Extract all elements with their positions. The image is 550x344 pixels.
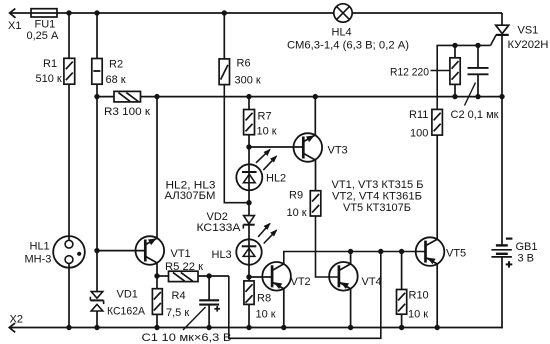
wire C1 top lead xyxy=(208,276,210,300)
node AB (bottom rail / VT4 lower lead) xyxy=(348,325,353,330)
node AA (bottom rail / VT2 lower lead) xyxy=(281,325,286,330)
svg-text:R2: R2 xyxy=(109,59,123,71)
wire R8 top lead xyxy=(248,277,250,281)
svg-text:10 к: 10 к xyxy=(408,308,428,320)
node AC (bottom rail / R10) xyxy=(399,325,404,330)
svg-text:100: 100 xyxy=(410,128,428,140)
wire R2 bottom to divider bus xyxy=(96,84,98,96)
wire R12 bottom to bus xyxy=(454,84,456,96)
wire feedback: R5/C1 node down, along lower run, up to VT5 base net xyxy=(229,252,381,339)
resistor R11 100 xyxy=(409,109,442,140)
wire battery negative lead to bottom rail corner xyxy=(501,257,503,328)
svg-text:300 к: 300 к xyxy=(235,75,261,87)
wire bottom rail xyxy=(9,327,503,329)
wire R2 column down to VT1 base node xyxy=(96,97,98,251)
node H (R5 wire / C1 top) xyxy=(206,273,211,278)
svg-text:10 к: 10 к xyxy=(257,126,277,138)
wire VT5 lower lead to bottom rail xyxy=(436,264,438,328)
svg-text:HL2: HL2 xyxy=(266,173,286,185)
svg-text:510 к: 510 к xyxy=(36,73,62,85)
svg-text:VT2: VT2 xyxy=(291,276,311,288)
label HL2, HL3 type xyxy=(165,179,216,202)
wire top rail from X1 to lamp HL4 xyxy=(10,12,334,14)
wire R5 right end to feedback corner xyxy=(198,275,229,277)
resistor R1 510 к xyxy=(36,58,75,85)
wire HL1 bottom to bottom rail xyxy=(68,264,70,328)
node Z (bottom rail / R8) xyxy=(246,325,251,330)
capacitor C2 0,1 мк xyxy=(451,68,499,121)
svg-text:10 к: 10 к xyxy=(287,207,307,219)
svg-text:R9: R9 xyxy=(289,190,303,202)
wire R6 bottom crossing divider bus down to HL2/VD2 node xyxy=(224,85,249,203)
label transistor types xyxy=(332,179,424,214)
svg-text:10 к: 10 к xyxy=(256,309,276,321)
svg-text:R12 220: R12 220 xyxy=(390,67,429,79)
node W (bottom rail / VD1) xyxy=(94,325,99,330)
wire VT4 lower lead to bottom rail xyxy=(350,289,352,328)
wire C1 bottom lead to bottom rail xyxy=(208,306,210,328)
svg-text:HL3: HL3 xyxy=(212,249,232,261)
svg-text:VT5 КТ3107Б: VT5 КТ3107Б xyxy=(343,202,411,214)
node E (VT1 base / VD1 column) xyxy=(94,248,99,253)
node V (bottom rail / HL1) xyxy=(66,325,71,330)
transistor VT5 КТ3107Б xyxy=(416,237,466,266)
wire top-right corner down to VS1 anode xyxy=(501,13,503,25)
svg-text:КУ202Н: КУ202Н xyxy=(508,39,549,51)
svg-text:FU1: FU1 xyxy=(35,19,56,31)
svg-text:7,5 к: 7,5 к xyxy=(166,307,189,319)
wire VT1 base from node E xyxy=(97,250,145,252)
node U (bus / thyristor cathode column) xyxy=(499,94,504,99)
svg-text:МН-3: МН-3 xyxy=(25,253,52,265)
node P (collector net / R10 top) xyxy=(399,249,404,254)
svg-text:АЛ307БМ: АЛ307БМ xyxy=(165,190,216,202)
wire divider bus to R3 xyxy=(97,96,114,98)
node C (top rail / R6) xyxy=(222,10,227,15)
wire VD2 cathode through LED HL3 to VT2 base node xyxy=(248,225,250,277)
resistor R9 10 к xyxy=(287,190,321,220)
wire VT3 upper lead to divider bus xyxy=(314,97,316,136)
connector X1 (mains terminal, arrow) xyxy=(8,9,21,32)
svg-text:VT1, VT3 КТ315 Б: VT1, VT3 КТ315 Б xyxy=(332,179,424,191)
wire R12 top lead xyxy=(454,45,456,57)
svg-text:СМ6,3-1,4 (6,3 В; 0,2 А): СМ6,3-1,4 (6,3 В; 0,2 А) xyxy=(287,39,409,51)
wire VD1 column from node E down to VD1 xyxy=(96,251,98,292)
thyristor VS1 КУ202Н xyxy=(496,25,549,52)
svg-text:С1 10 мк×6,3 В: С1 10 мк×6,3 В xyxy=(142,332,232,344)
svg-text:VT2, VT4 КТ361Б: VT2, VT4 КТ361Б xyxy=(332,191,422,203)
wire VT3 base from node J xyxy=(249,146,303,148)
transistor VT3 КТ315Б xyxy=(294,133,348,162)
node B (top rail / R2) xyxy=(94,10,99,15)
LED HL3 АЛ307БМ xyxy=(212,224,277,265)
capacitor C1 10 мк x 6,3 В (electrolytic) xyxy=(142,300,232,344)
transistor VT2 КТ361Б xyxy=(262,262,310,291)
resistor R12 220 xyxy=(390,58,460,85)
wire VT3 lower lead to R9 xyxy=(315,160,317,191)
wire R6 top lead xyxy=(223,13,225,59)
node M (divider bus / VT3 upper lead) xyxy=(313,94,318,99)
wire VS1 cathode column down to battery xyxy=(501,35,503,246)
svg-text:VD1: VD1 xyxy=(117,289,138,301)
battery GB1 3 В xyxy=(491,239,537,268)
svg-text:VT4: VT4 xyxy=(362,276,382,288)
wire node G to R4 xyxy=(156,276,158,289)
svg-text:X1: X1 xyxy=(8,20,21,32)
wire R9 bottom crossing VT2 net down and right to VT4 base xyxy=(316,216,339,277)
zener VD2 КС133А xyxy=(197,211,255,234)
svg-text:С2 0,1 мк: С2 0,1 мк xyxy=(451,109,499,121)
node A (top rail / R1) xyxy=(66,10,71,15)
wire VT1 upper lead to divider bus xyxy=(156,97,158,239)
lamp HL4 CM6,3-1,4 (indicator bulb in series with top rail) xyxy=(287,4,409,52)
wire divider bus y=96.6 from R3 to thyristor column xyxy=(141,96,503,98)
fuse FU1 0,25 A xyxy=(27,9,59,42)
svg-text:VT1: VT1 xyxy=(171,248,191,260)
node K (HL2 cathode / R6 branch / VD2 anode) xyxy=(246,200,251,205)
transistor VT1 КТ315Б xyxy=(136,236,191,265)
wire VT2 base from node L xyxy=(249,276,272,278)
transistor VT4 КТ361Б xyxy=(329,262,382,291)
wire node G to R5 xyxy=(157,275,169,277)
svg-text:КС162А: КС162А xyxy=(107,306,146,318)
node R (gate wire / C2 top) xyxy=(475,43,480,48)
node Y (bottom rail / C1) xyxy=(206,325,211,330)
wire R2 top lead xyxy=(96,13,98,59)
svg-text:КС133А: КС133А xyxy=(197,222,242,234)
svg-text:HL1: HL1 xyxy=(30,240,50,252)
wire C2 bottom to bus xyxy=(477,74,479,96)
node F (divider bus / VT1 upper lead) xyxy=(154,94,159,99)
svg-text:HL4: HL4 xyxy=(332,27,352,39)
svg-text:R1: R1 xyxy=(43,58,57,70)
LED HL2 АЛ307БМ xyxy=(236,150,286,191)
resistor R3 100 к xyxy=(104,91,150,118)
svg-text:R10: R10 xyxy=(409,290,429,302)
node G (VT1 lower lead / R5 / R4) xyxy=(154,273,159,278)
neon lamp HL1 МН-3 xyxy=(25,236,85,268)
resistor R8 10 к xyxy=(244,281,276,321)
node D (divider bus / R2 / R3) xyxy=(94,94,99,99)
resistor R7 10 к xyxy=(244,110,277,138)
wire VT2 upper lead up to collector net xyxy=(284,252,426,265)
svg-text:R3 100 к: R3 100 к xyxy=(104,106,150,118)
zener VD1 КС162А (bidirectional) xyxy=(90,289,145,318)
node T (bus / C2 bottom) xyxy=(475,94,480,99)
svg-text:3 В: 3 В xyxy=(518,252,535,264)
wire VT2 lower lead to bottom rail xyxy=(283,289,285,328)
wire VD1 bottom to bottom rail xyxy=(96,311,98,328)
wire R4 bottom to bottom rail xyxy=(156,314,158,327)
svg-text:VT5: VT5 xyxy=(446,248,466,260)
svg-text:R4: R4 xyxy=(172,290,186,302)
node N (collector net / VT4 upper lead) xyxy=(348,249,353,254)
node Q (gate wire / R12 top) xyxy=(452,43,457,48)
resistor R5 22 к xyxy=(165,261,203,282)
wire thyristor gate slant xyxy=(491,35,496,45)
svg-text:R5 22 к: R5 22 к xyxy=(165,261,203,273)
svg-text:0,25 А: 0,25 А xyxy=(27,30,59,42)
node X (bottom rail / R4) xyxy=(154,325,159,330)
svg-text:VS1: VS1 xyxy=(518,25,539,37)
wire R8 bottom to bottom rail xyxy=(248,304,250,327)
node S (bus / R12 bottom) xyxy=(452,94,457,99)
node L (HL3 / VT2 base / R8 top) xyxy=(246,274,251,279)
wire C2 top lead xyxy=(477,45,479,68)
node O (collector net / feedback riser) xyxy=(378,249,383,254)
node J (R7 / HL2 / VT3 base wire) xyxy=(246,144,251,149)
connector X2 (mains terminal, arrow) xyxy=(9,314,23,333)
wire R1 bottom to lamp HL1 xyxy=(68,84,70,240)
wire R7 bottom through LED HL2 to VD2 node xyxy=(248,135,250,216)
wire R10 top lead xyxy=(401,252,403,290)
resistor R10 10 к xyxy=(397,290,429,321)
resistor R2 68 к xyxy=(92,59,126,87)
wire VT4 upper lead xyxy=(350,252,352,265)
wire VT5 upper lead up to R11 xyxy=(436,135,438,239)
wire R11 top crossing divider bus up to gate wire corner xyxy=(437,45,490,109)
svg-text:GB1: GB1 xyxy=(516,241,538,253)
svg-text:R11: R11 xyxy=(409,109,428,121)
wire VT1 lower lead down to R5/R4 node xyxy=(156,263,158,276)
svg-text:R7: R7 xyxy=(258,111,272,123)
wire top rail from lamp HL4 to top-right corner xyxy=(352,12,502,14)
svg-text:R8: R8 xyxy=(257,293,271,305)
resistor R6 300 к xyxy=(219,58,261,87)
wire R10 bottom to bottom rail xyxy=(401,314,403,327)
svg-text:X2: X2 xyxy=(10,314,23,326)
svg-text:VT3: VT3 xyxy=(328,145,348,157)
node AD (bottom rail / VT5 lower lead) xyxy=(435,325,440,330)
svg-text:R6: R6 xyxy=(237,58,251,70)
svg-text:68 к: 68 к xyxy=(106,74,126,86)
wire R7 top lead xyxy=(248,97,250,110)
node I (divider bus / R7 top) xyxy=(246,94,251,99)
resistor R4 7,5 к xyxy=(152,289,189,319)
wire R1 top lead xyxy=(68,13,70,58)
